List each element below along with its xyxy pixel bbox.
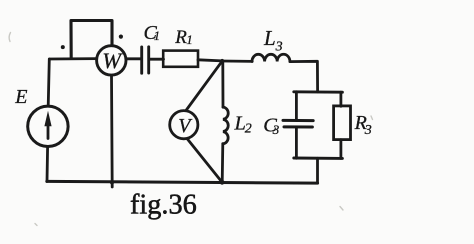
svg-text:2: 2 xyxy=(245,122,252,137)
wire parallel block down to bottom rail xyxy=(316,158,319,183)
wire C3 branch lower xyxy=(295,128,298,158)
label C1 xyxy=(144,22,161,44)
label L2 xyxy=(234,113,252,137)
svg-text:E: E xyxy=(14,86,27,108)
resistor R3 xyxy=(334,106,351,140)
polarity dot left of wattmeter xyxy=(61,45,65,49)
svg-text:3: 3 xyxy=(364,123,372,138)
wire R1 to node A xyxy=(198,60,222,61)
svg-text:W: W xyxy=(102,48,123,73)
wire C3 branch upper xyxy=(295,92,298,119)
wire parallel block top rail xyxy=(294,90,343,93)
wire diagonal voltmeter to bottom junction xyxy=(186,137,222,182)
svg-text:L: L xyxy=(263,26,276,50)
polarity dot right of wattmeter loop xyxy=(119,35,123,39)
wire bottom horizontal xyxy=(47,181,318,183)
svg-text:fig.36: fig.36 xyxy=(130,190,197,221)
label R3 xyxy=(354,112,372,138)
wattmeter U1 W xyxy=(97,46,126,75)
svg-text:1: 1 xyxy=(186,32,193,47)
node A junction xyxy=(220,59,224,63)
wire node A to L3 xyxy=(222,60,252,63)
source E xyxy=(28,106,68,146)
wire below source E to bottom rail xyxy=(46,147,49,182)
capacitor C3 xyxy=(283,120,313,127)
wire diagonal node A to voltmeter xyxy=(185,62,222,113)
node junction at wattmeter stem xyxy=(110,181,114,185)
svg-text:3: 3 xyxy=(272,122,280,137)
wire R3 branch lower xyxy=(339,140,342,159)
node B bottom junction xyxy=(220,180,225,185)
wire R3 branch upper xyxy=(339,92,342,106)
wire wattmeter current-coil loop xyxy=(71,21,112,59)
label C3 xyxy=(263,115,280,138)
wire C1 to R1 xyxy=(150,58,164,61)
inductor L3 xyxy=(252,54,290,61)
wire parallel block bottom rail xyxy=(294,157,343,160)
wire wattmeter to C1 xyxy=(126,57,141,60)
scan artifact marks xyxy=(9,33,372,226)
wire top-left horizontal xyxy=(50,57,98,60)
capacitor C1 xyxy=(142,47,149,73)
wire left vertical (top wire to source E) xyxy=(48,59,49,107)
voltmeter V xyxy=(170,111,198,139)
label R1 xyxy=(174,27,192,48)
wire L2 to bottom junction xyxy=(221,144,224,183)
resistor R1 xyxy=(163,51,198,67)
label L3 xyxy=(263,26,283,55)
svg-text:3: 3 xyxy=(275,40,283,55)
wire node A down to L2 xyxy=(221,61,224,107)
wire L3 to right corner down to parallel block xyxy=(290,61,318,92)
svg-text:1: 1 xyxy=(154,29,160,43)
inductor L2 xyxy=(223,107,228,144)
wire stem from wattmeter down to bottom rail xyxy=(110,75,113,187)
